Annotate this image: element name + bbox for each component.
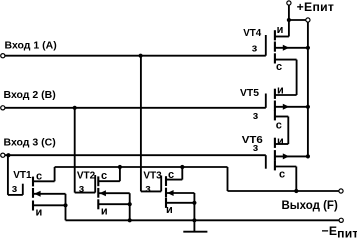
svg-text:з: з	[145, 183, 151, 195]
svg-text:з: з	[252, 43, 258, 55]
svg-text:и: и	[277, 136, 284, 148]
svg-text:VT2: VT2	[77, 170, 96, 181]
svg-text:с: с	[168, 169, 174, 181]
svg-text:с: с	[276, 61, 282, 73]
svg-text:Вход 2 (В): Вход 2 (В)	[4, 89, 56, 101]
svg-text:з: з	[253, 142, 259, 154]
svg-text:и: и	[166, 204, 173, 216]
svg-text:+Eпит: +Eпит	[297, 0, 335, 14]
svg-text:з: з	[79, 183, 85, 195]
svg-text:VT1: VT1	[13, 170, 32, 181]
svg-text:Вход 1 (А): Вход 1 (А)	[5, 39, 57, 51]
svg-text:Выход (F): Выход (F)	[282, 200, 338, 212]
svg-text:Вход 3 (С): Вход 3 (С)	[4, 136, 56, 148]
svg-text:VT4: VT4	[243, 28, 261, 39]
svg-text:и: и	[277, 85, 284, 97]
svg-text:з: з	[12, 183, 18, 195]
svg-text:с: с	[279, 169, 285, 181]
svg-text:VT3: VT3	[143, 170, 162, 181]
svg-text:з: з	[253, 110, 259, 122]
svg-text:с: с	[36, 171, 42, 183]
svg-text:с: с	[276, 120, 282, 132]
svg-text:VT5: VT5	[240, 88, 259, 99]
svg-text:и: и	[101, 205, 108, 217]
svg-text:и: и	[277, 24, 284, 36]
svg-text:с: с	[101, 170, 107, 182]
svg-text:−Eпит: −Eпит	[322, 224, 357, 238]
svg-text:и: и	[36, 206, 43, 218]
